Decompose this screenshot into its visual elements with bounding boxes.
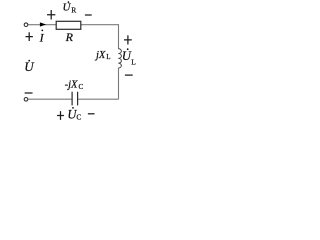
svg-text:R: R — [71, 6, 76, 15]
svg-text:jX: jX — [94, 50, 106, 61]
svg-text:C: C — [79, 83, 84, 91]
svg-text:R: R — [65, 30, 74, 44]
svg-text:C: C — [76, 113, 81, 122]
svg-text:L: L — [131, 58, 136, 67]
svg-text:I: I — [39, 31, 45, 45]
svg-text:U: U — [24, 59, 35, 74]
svg-text:-jX: -jX — [65, 80, 78, 91]
svg-text:L: L — [106, 53, 110, 61]
svg-text:U: U — [63, 2, 72, 14]
